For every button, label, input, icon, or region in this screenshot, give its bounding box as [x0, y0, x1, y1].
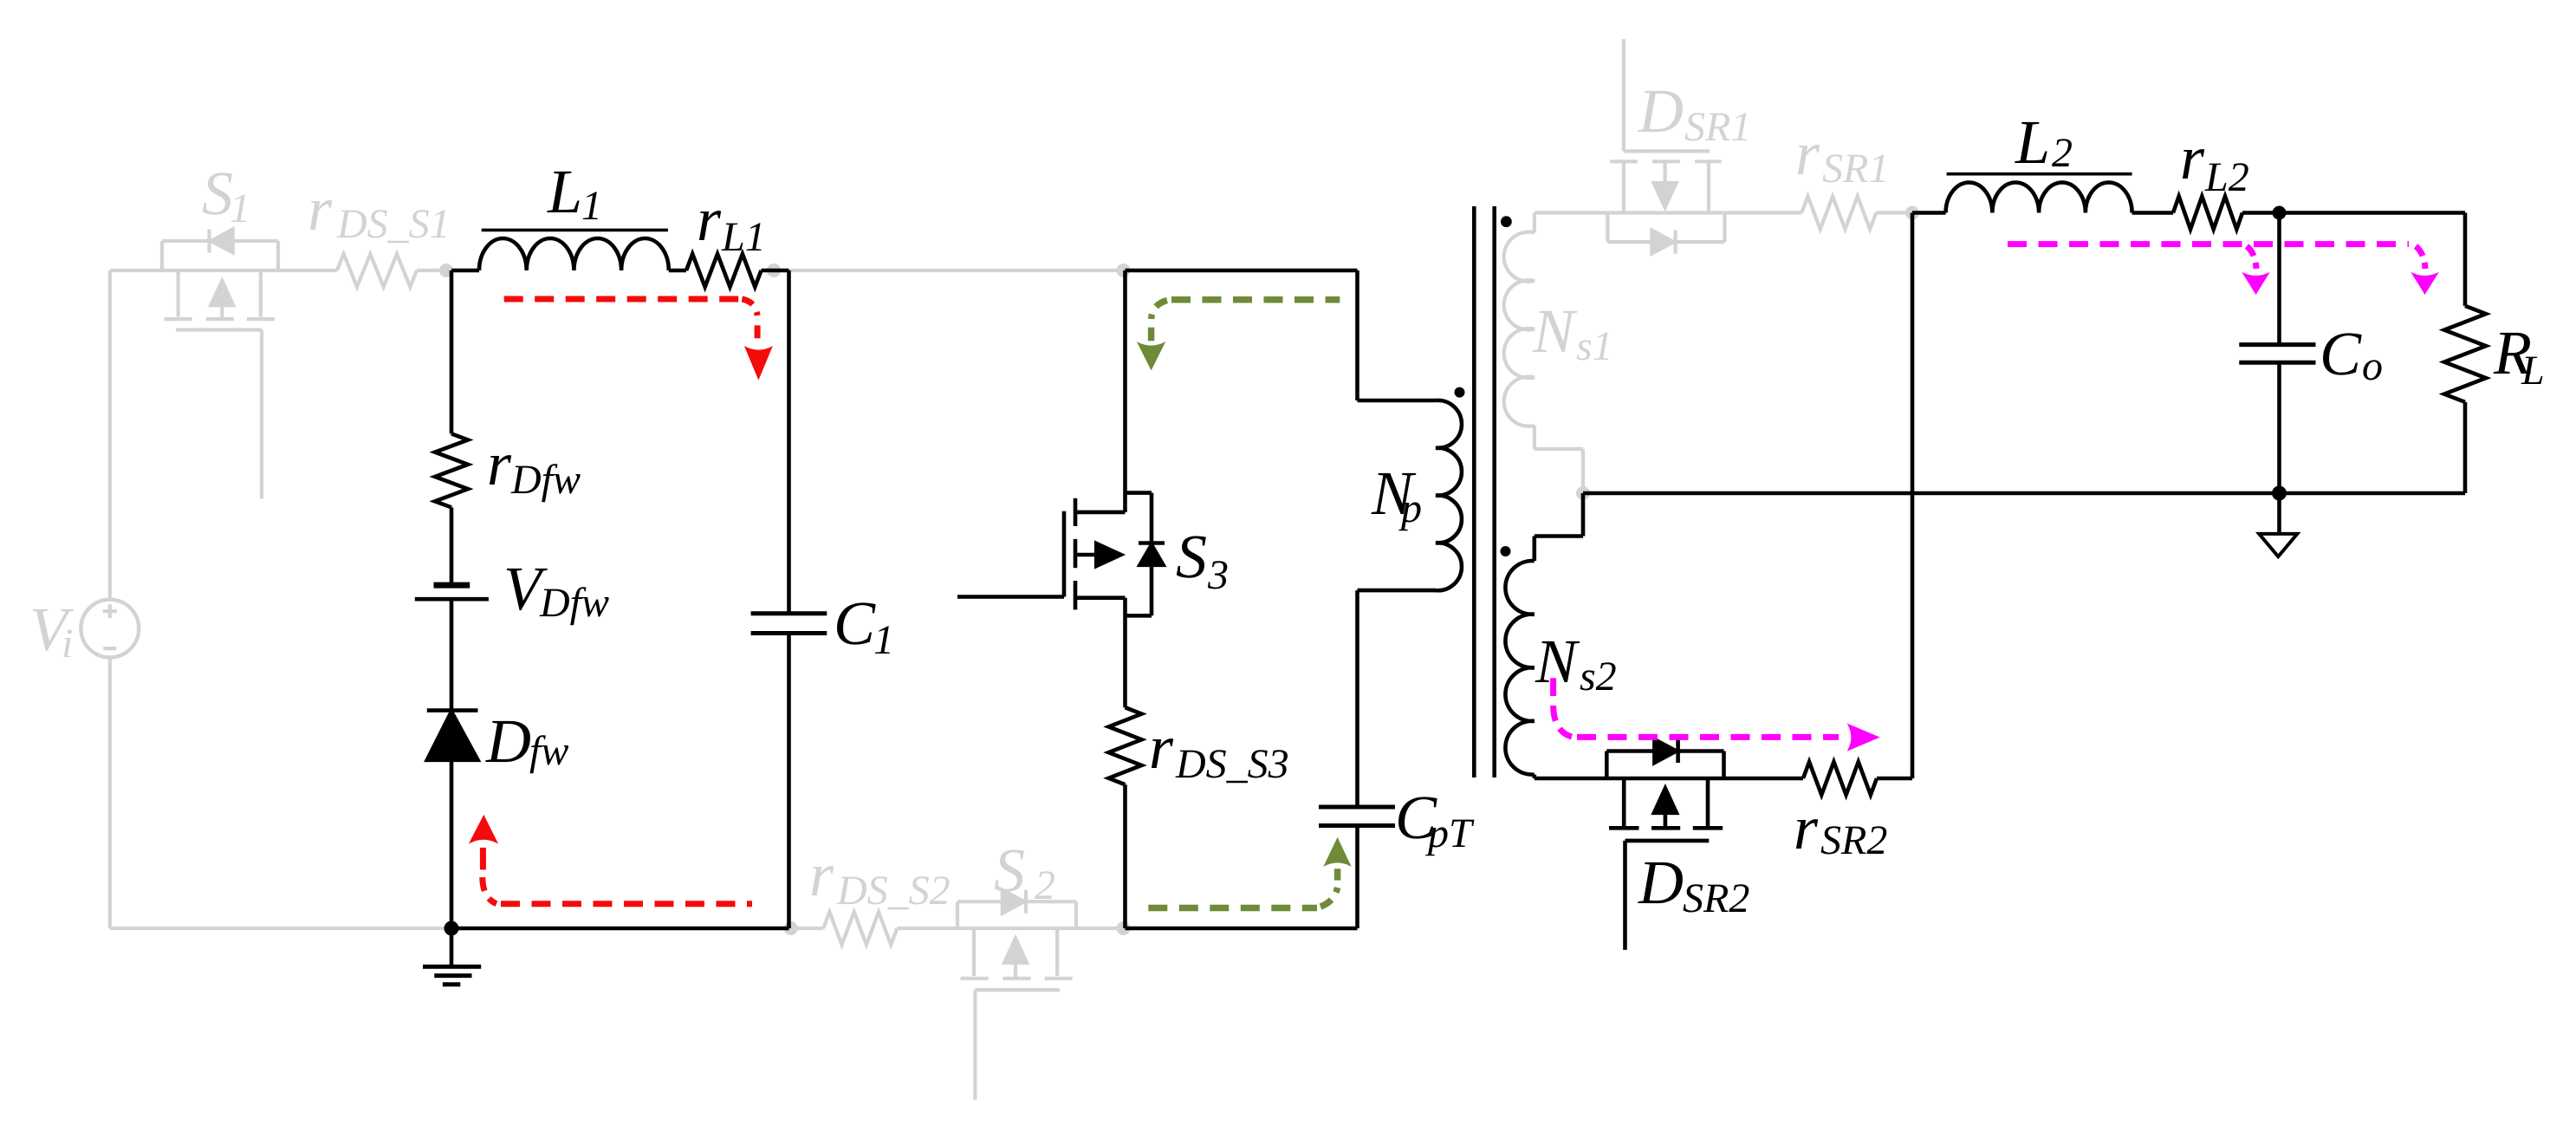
wire	[1535, 447, 1583, 451]
label S1	[202, 159, 250, 231]
wire	[1123, 784, 1127, 928]
wire	[450, 599, 454, 710]
wire	[451, 927, 789, 931]
resistor r_DS_S1	[337, 254, 417, 287]
node Ns1 dot	[1501, 216, 1512, 227]
wire	[450, 270, 454, 433]
wire	[1911, 213, 1915, 779]
current path magenta bottom	[1554, 678, 1879, 750]
wire	[2277, 362, 2281, 493]
svg-text:r: r	[1149, 712, 1174, 782]
svg-text:L: L	[2015, 107, 2050, 177]
wire	[1355, 826, 1359, 929]
label S3	[1176, 522, 1229, 598]
svg-text:o: o	[2362, 343, 2383, 389]
wire	[2463, 402, 2468, 493]
svg-text:N: N	[1535, 627, 1580, 696]
wire	[2277, 213, 2281, 345]
node Np dot	[1455, 387, 1465, 398]
svg-text:s1: s1	[1576, 323, 1613, 369]
current path green top	[1138, 300, 1340, 370]
winding Ns1	[1504, 232, 1535, 426]
wire	[1126, 269, 1358, 273]
node	[1576, 486, 1590, 500]
svg-text:DS_S2: DS_S2	[836, 868, 951, 914]
wire	[110, 927, 451, 930]
svg-text:L1: L1	[721, 214, 766, 260]
transistor D_SR1	[1607, 39, 1724, 254]
wire	[1358, 399, 1437, 403]
wire	[787, 634, 791, 929]
svg-text:1: 1	[581, 183, 602, 229]
transformer core	[1474, 206, 1494, 777]
label L2	[2015, 107, 2073, 177]
node	[767, 263, 781, 277]
resistor r_L2	[2173, 197, 2242, 230]
wire	[1123, 270, 1127, 512]
label r_SR2	[1794, 793, 1887, 863]
wire	[1358, 589, 1437, 593]
label r_DS_S1	[308, 174, 451, 247]
wire	[1912, 211, 1946, 215]
wire	[1581, 493, 1586, 537]
svg-text:N: N	[1532, 296, 1578, 366]
transistor S1	[162, 230, 278, 499]
svg-text:1: 1	[873, 617, 894, 663]
label Ns2	[1535, 627, 1617, 699]
wire	[788, 927, 823, 930]
svg-text:L: L	[547, 157, 582, 226]
svg-text:r: r	[1795, 119, 1820, 188]
svg-text:p: p	[1398, 485, 1422, 531]
current path green bottom	[1148, 838, 1350, 908]
wire	[1583, 491, 2465, 496]
wire	[1876, 211, 1912, 214]
wire	[417, 269, 451, 272]
wire	[110, 269, 337, 272]
wire	[1355, 270, 1359, 400]
label r_DS_S3	[1149, 712, 1289, 787]
wire	[1533, 426, 1536, 449]
label Ns1	[1532, 296, 1613, 369]
label R_L	[2493, 318, 2545, 394]
label r_SR1	[1795, 119, 1889, 192]
resistor r_DS_S2	[823, 912, 897, 945]
wire	[1123, 598, 1127, 708]
transistor S2	[957, 890, 1076, 1100]
svg-text:r: r	[697, 185, 722, 254]
label D_SR2	[1638, 848, 1749, 921]
svg-text:L2: L2	[2204, 154, 2249, 200]
capacitor Co	[2239, 345, 2315, 363]
svg-text:r: r	[809, 840, 834, 909]
svg-text:r: r	[308, 174, 333, 244]
inductor L1	[479, 230, 669, 270]
ground	[423, 928, 481, 985]
svg-text:3: 3	[1207, 552, 1229, 598]
wire	[1535, 211, 1801, 214]
svg-text:S: S	[1176, 522, 1207, 591]
svg-text:Dfw: Dfw	[539, 580, 609, 626]
resistor R_L	[2444, 306, 2486, 402]
wire	[774, 269, 1125, 272]
svg-text:i: i	[62, 621, 73, 667]
resistor r_SR1	[1801, 197, 1876, 230]
wire	[1533, 775, 1537, 778]
node	[439, 263, 453, 277]
label Np	[1371, 459, 1422, 531]
wire	[2463, 213, 2468, 306]
svg-text:S: S	[202, 159, 233, 228]
label L1	[547, 157, 602, 229]
label C_pT	[1395, 783, 1475, 856]
svg-text:1: 1	[230, 185, 250, 231]
node	[1905, 206, 1919, 220]
wire	[762, 269, 789, 273]
label r_Dfw	[487, 429, 581, 503]
ground	[2259, 493, 2297, 556]
wire	[450, 507, 454, 585]
svg-text:SR1: SR1	[1822, 146, 1889, 192]
svg-text:D: D	[1638, 848, 1684, 917]
wire	[1355, 590, 1359, 807]
wire	[1533, 537, 1537, 562]
label r_L1	[697, 185, 766, 260]
voltage source Vi	[81, 600, 139, 658]
label D_fw	[485, 706, 568, 776]
wire	[1581, 449, 1585, 493]
svg-text:r: r	[2180, 123, 2205, 192]
node	[2272, 486, 2287, 501]
wire	[1533, 213, 1536, 233]
svg-text:C: C	[834, 589, 876, 658]
svg-text:s2: s2	[1580, 654, 1617, 699]
winding Np	[1436, 400, 1462, 590]
inductor L2	[1946, 174, 2132, 213]
svg-text:pT: pT	[1425, 810, 1475, 856]
wire	[1535, 777, 1803, 781]
wire	[787, 270, 791, 614]
resistor r_Dfw	[435, 433, 468, 507]
node Ns2 dot	[1501, 546, 1511, 556]
label Co	[2320, 319, 2383, 389]
node	[444, 921, 459, 936]
label r_DS_S2	[809, 840, 951, 914]
label C1	[834, 589, 894, 663]
node	[1117, 921, 1131, 935]
wire	[669, 269, 686, 273]
wire	[450, 760, 454, 928]
svg-text:S: S	[994, 836, 1025, 905]
node	[2273, 206, 2287, 220]
label D_SR1	[1638, 76, 1751, 150]
node	[1117, 263, 1131, 277]
svg-text:r: r	[1794, 793, 1819, 862]
resistor r_SR2	[1803, 762, 1877, 795]
diode D_fw	[427, 711, 478, 760]
current path red top	[504, 299, 772, 379]
label Vi	[29, 595, 74, 667]
battery V_Dfw	[415, 585, 489, 599]
winding Ns2	[1505, 561, 1534, 775]
node	[784, 921, 798, 935]
svg-text:2: 2	[2052, 130, 2073, 176]
wire	[451, 269, 479, 273]
svg-text:fw: fw	[529, 728, 568, 774]
wire	[108, 658, 112, 929]
wire	[897, 927, 1125, 930]
svg-text:r: r	[487, 429, 512, 498]
label S2	[994, 836, 1055, 908]
capacitor C_pT	[1319, 807, 1395, 826]
wire	[1877, 777, 1912, 781]
svg-text:DS_S1: DS_S1	[336, 201, 451, 247]
resistor r_DS_S3	[1109, 707, 1142, 784]
svg-text:Dfw: Dfw	[510, 457, 581, 503]
svg-text:D: D	[485, 706, 531, 776]
wire	[2242, 211, 2465, 215]
svg-text:SR2: SR2	[1683, 875, 1749, 921]
current path magenta top	[2008, 244, 2438, 294]
label r_L2	[2180, 123, 2249, 200]
svg-text:L: L	[2521, 348, 2545, 394]
capacitor C1	[751, 614, 827, 634]
svg-text:2: 2	[1035, 862, 1055, 908]
wire	[1535, 534, 1583, 538]
label V_Dfw	[503, 554, 609, 626]
svg-text:D: D	[1638, 76, 1684, 146]
wire	[1126, 927, 1358, 931]
wire	[2132, 211, 2173, 215]
svg-text:SR2: SR2	[1820, 817, 1887, 863]
transistor S3	[957, 493, 1165, 616]
svg-text:C: C	[2320, 319, 2362, 388]
svg-text:SR1: SR1	[1684, 104, 1751, 150]
wire	[108, 270, 112, 600]
transistor D_SR2	[1606, 739, 1723, 950]
svg-text:DS_S3: DS_S3	[1175, 741, 1289, 787]
resistor r_L1	[686, 254, 762, 287]
current path red bottom	[470, 816, 752, 904]
